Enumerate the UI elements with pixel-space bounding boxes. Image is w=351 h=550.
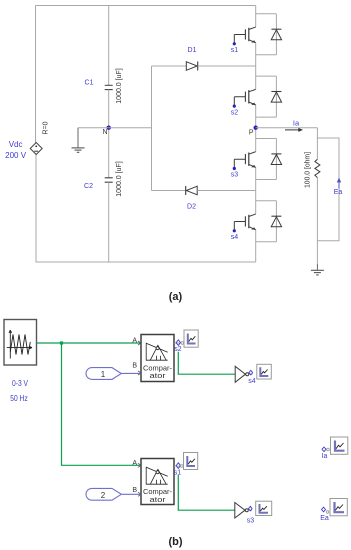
svg-text:ator: ator — [150, 495, 167, 504]
node P — [254, 126, 258, 130]
wire switch rail segments — [255, 6, 257, 263]
svg-text:100.0 [ohm]: 100.0 [ohm] — [303, 152, 312, 188]
capacitor C1 — [105, 85, 113, 89]
node s2 net label — [174, 340, 182, 353]
node N — [107, 126, 111, 130]
wire constant1 to comparator1 B — [121, 372, 140, 374]
label comparator2 pin A — [132, 460, 141, 468]
diode antiparallel s1 — [256, 14, 282, 55]
wire D1 right — [198, 65, 256, 67]
svg-text:C1: C1 — [85, 80, 94, 87]
diode antiparallel s4 — [256, 201, 282, 242]
svg-text:s2: s2 — [231, 109, 239, 116]
label comparator2 pin B — [132, 487, 141, 496]
node Ia net label — [322, 447, 330, 460]
ground load — [311, 264, 324, 275]
label Vdc value — [5, 140, 27, 160]
svg-text:Ea: Ea — [334, 189, 343, 196]
probe Ea — [330, 499, 347, 516]
wire Ea branch — [317, 138, 339, 241]
gate NOT inverter for s4 — [235, 366, 249, 382]
svg-text:A: A — [132, 460, 137, 467]
svg-text:ator: ator — [150, 371, 167, 380]
diode antiparallel s3 — [256, 139, 282, 180]
label Ia current flag — [285, 119, 303, 132]
capacitor C2 — [105, 178, 113, 182]
wire green source to comparator1 A — [37, 342, 141, 344]
svg-text:Ea: Ea — [320, 515, 329, 522]
probe s2 — [181, 330, 198, 347]
wire green comparator1 out to inverter s4 — [178, 352, 235, 374]
wire top rail — [36, 5, 256, 7]
source Vdc — [30, 143, 42, 155]
probe s1 — [181, 453, 198, 470]
wire constant2 to comparator2 B — [121, 493, 140, 495]
svg-text:1000.0 [uF]: 1000.0 [uF] — [116, 68, 123, 103]
svg-text:B: B — [132, 487, 137, 494]
wire mid column lower — [108, 182, 110, 262]
wire left rail upper — [35, 6, 37, 143]
transistor s3 IGBT — [233, 152, 256, 170]
source constant 1 — [86, 368, 121, 380]
op-amp U2 comparator 2 — [141, 459, 174, 505]
resistor load 100 ohm — [315, 159, 320, 177]
node s1 net label — [174, 463, 182, 477]
wire N to ground — [78, 127, 109, 129]
wire D1 left — [152, 65, 187, 67]
svg-text:B: B — [132, 363, 137, 370]
transistor s2 IGBT — [233, 89, 256, 107]
svg-text:R=0: R=0 — [43, 121, 50, 134]
op-amp U1 comparator 1 — [141, 335, 174, 382]
probe s4 — [257, 364, 272, 379]
wire green junction down to comparator2 A — [62, 343, 141, 465]
svg-text:Ia: Ia — [322, 453, 328, 460]
transistor s4 IGBT — [233, 214, 256, 232]
wire mid column middle — [108, 90, 110, 178]
node Ea net label — [320, 507, 329, 522]
svg-text:Ia: Ia — [293, 119, 300, 128]
svg-text:(b): (b) — [168, 536, 182, 548]
wire D2 right — [197, 190, 256, 192]
node s4 net label — [248, 370, 256, 385]
wire N to diode rail — [109, 127, 152, 129]
svg-text:s2: s2 — [174, 346, 182, 353]
diode D2 — [186, 186, 198, 195]
probe Ia — [331, 437, 348, 454]
svg-text:s1: s1 — [174, 470, 182, 477]
label Ea voltage flag — [334, 178, 343, 197]
svg-text:s4: s4 — [248, 378, 256, 385]
wire diode rail vertical — [151, 66, 153, 191]
svg-text:D2: D2 — [187, 204, 196, 211]
gate NOT inverter for s3 — [235, 503, 249, 519]
node s3 net label — [247, 506, 255, 524]
svg-text:s4: s4 — [231, 234, 239, 241]
svg-text:Vdc: Vdc — [9, 140, 23, 149]
wire load column lower — [316, 178, 318, 264]
svg-text:1000.0 [uF]: 1000.0 [uF] — [116, 161, 123, 196]
wire P to load — [256, 127, 318, 129]
wire green comparator2 out to inverter s3 — [178, 475, 234, 510]
ground at N — [72, 128, 85, 153]
svg-text:D1: D1 — [188, 47, 197, 54]
svg-text:50 Hz: 50 Hz — [10, 393, 28, 403]
svg-text:N: N — [102, 129, 107, 136]
svg-text:2: 2 — [101, 491, 106, 500]
svg-text:0-3 V: 0-3 V — [12, 378, 28, 388]
source constant 2 — [86, 488, 121, 500]
svg-text:A: A — [132, 338, 137, 345]
label source value — [10, 378, 28, 403]
svg-text:1: 1 — [101, 370, 106, 379]
node green junction — [60, 341, 63, 344]
label comparator1 pin B — [132, 363, 141, 375]
source triangular wave generator — [4, 320, 37, 366]
svg-text:s1: s1 — [231, 47, 239, 54]
svg-text:s3: s3 — [231, 172, 239, 179]
wire left rail lower — [35, 155, 37, 263]
svg-text:P: P — [249, 130, 254, 137]
diode antiparallel s2 — [256, 76, 282, 117]
svg-text:200 V: 200 V — [5, 151, 27, 160]
wire bottom rail — [36, 261, 256, 263]
diode D1 — [186, 62, 197, 71]
wire D2 left — [152, 190, 187, 192]
wire mid column upper — [108, 6, 110, 86]
wire load column upper — [316, 128, 318, 160]
label comparator1 pin A — [132, 338, 141, 346]
svg-text:s3: s3 — [247, 518, 255, 525]
svg-text:C2: C2 — [84, 183, 93, 190]
transistor s1 IGBT — [233, 27, 256, 45]
svg-text:(a): (a) — [169, 291, 183, 303]
probe s3 — [256, 501, 272, 515]
